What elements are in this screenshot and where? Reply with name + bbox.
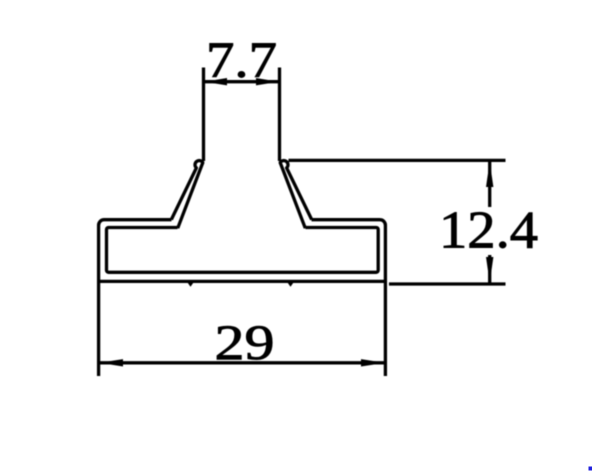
svg-text:29: 29 — [215, 314, 275, 370]
svg-text:7.7: 7.7 — [206, 33, 277, 89]
svg-text:12.4: 12.4 — [439, 202, 538, 260]
